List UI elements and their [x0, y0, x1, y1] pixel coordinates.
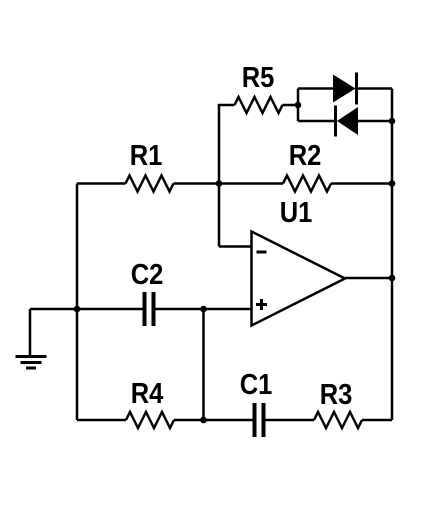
junction node: ground / left rail / C2	[74, 306, 81, 313]
wire: left bracket joining diode branches	[297, 89, 300, 122]
svg-text:C1: C1	[240, 367, 273, 400]
wire: R1 left segment	[77, 182, 126, 185]
wire: R3 right segment to right rail	[362, 419, 392, 422]
junction node: R4/C1 bottom	[200, 417, 207, 424]
op-amp U1 plus pin symbol	[256, 299, 267, 310]
wire: C2 left segment	[77, 308, 143, 311]
svg-text:R3: R3	[320, 377, 353, 410]
resistor R2	[283, 176, 331, 192]
junction node: bottom diode at right rail	[389, 118, 396, 125]
wire: bottom left segment	[77, 419, 126, 422]
junction node: op-amp output at right rail	[389, 275, 396, 282]
wire: R2 right segment to right rail	[331, 182, 392, 185]
junction node: R5 at diode bracket	[295, 102, 302, 109]
wire: right rail (x=392)	[391, 89, 394, 421]
junction node A (R1/R2/feedback)	[216, 180, 223, 187]
svg-text:C2: C2	[131, 257, 164, 290]
wire: ground branch horizontal	[30, 308, 77, 311]
svg-text:R5: R5	[242, 60, 275, 93]
wire: inverting input wire into op-amp	[219, 245, 252, 248]
wire: bottom diode anode wire to right rail	[358, 120, 392, 123]
op-amp U1 triangle	[252, 232, 346, 326]
wire: C2 right segment to node B	[156, 308, 204, 311]
wire: bottom diode cathode wire	[298, 120, 336, 123]
wire: ground stub vertical	[29, 309, 32, 356]
wire: R4 to bottom node	[174, 419, 253, 422]
svg-text:R2: R2	[289, 138, 322, 171]
resistor R4	[126, 412, 174, 428]
wire: vertical from node A up to R5 and down to inverting input	[219, 105, 235, 247]
capacitor C2 plates	[145, 292, 154, 326]
svg-text:U1: U1	[280, 195, 313, 228]
resistor R1	[126, 176, 174, 192]
diode D1 (top, anode left)	[333, 73, 357, 105]
wire: R2 left segment	[219, 182, 283, 185]
ground symbol	[16, 357, 47, 369]
wire: R1 right segment to node A	[174, 182, 220, 185]
wire: C1 right segment	[266, 419, 315, 422]
junction node: R2 at right rail	[389, 180, 396, 187]
wire: left rail (x=77)	[76, 184, 79, 421]
capacitor C1 plates	[255, 403, 264, 437]
resistor R5	[235, 97, 283, 113]
op-amp U1 minus pin symbol	[257, 251, 267, 254]
svg-text:R4: R4	[131, 376, 164, 409]
wire: top diode anode wire	[298, 87, 333, 90]
junction node B (C2 / non-inverting input)	[200, 306, 207, 313]
wire: op-amp output wire	[345, 277, 392, 280]
svg-text:R1: R1	[130, 138, 163, 171]
resistor R3	[314, 412, 362, 428]
wire: non-inverting input wire into op-amp	[204, 308, 252, 311]
wire: top diode cathode wire to right rail corner	[357, 87, 393, 90]
diode D2 (bottom, anode right)	[336, 106, 359, 137]
wire: R5 right segment to diode bracket node	[283, 104, 299, 107]
wire: vertical from node B down to bottom node	[202, 309, 205, 420]
